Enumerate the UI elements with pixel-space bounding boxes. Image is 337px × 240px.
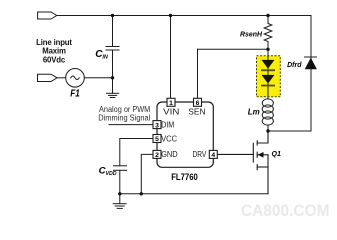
wire GND pin to bottom rail [141, 154, 153, 193]
svg-text:Analog or PWM: Analog or PWM [99, 105, 150, 114]
op-amp U1 FL7760 body [157, 102, 213, 167]
resistor RsenH [264, 16, 272, 56]
wire right rail [310, 16, 312, 132]
Q1 drain wire [257, 131, 268, 143]
pin 5 box [153, 135, 161, 144]
wire inductor node to right rail [268, 130, 311, 132]
wire VIN [170, 16, 172, 99]
wire connector to fuse [57, 77, 66, 79]
svg-text:60Vdc: 60Vdc [43, 55, 66, 64]
capacitor CIN plates [106, 46, 119, 48]
diode Dfrd triangle [305, 58, 317, 70]
wire SEN vertical [197, 49, 199, 98]
ground G1 [107, 78, 119, 98]
svg-text:Dimming Signal: Dimming Signal [98, 114, 150, 123]
Q1 gate bar [252, 143, 254, 162]
svg-text:4: 4 [211, 152, 215, 159]
Q1 arrow [258, 152, 264, 158]
svg-text:6: 6 [196, 100, 200, 107]
pin 4 box [209, 150, 217, 159]
connector J1 line input [38, 12, 57, 19]
svg-text:VIN: VIN [163, 107, 179, 116]
wire DRV to gate [217, 153, 253, 155]
node top CIN [111, 14, 114, 17]
svg-text:1: 1 [169, 100, 173, 107]
node dots [111, 14, 270, 196]
wire fuse to node [84, 77, 112, 79]
svg-text:SEN: SEN [188, 107, 205, 116]
Q1 channel bar [256, 141, 258, 145]
LED highlight box [257, 56, 281, 97]
svg-text:5: 5 [155, 136, 159, 143]
svg-text:GND: GND [161, 150, 178, 159]
pin 6 box [194, 98, 202, 107]
wire CVDD bottom [119, 170, 121, 194]
svg-text:Q1: Q1 [272, 151, 281, 158]
svg-text:FL7760: FL7760 [171, 171, 198, 182]
wire RsenH node to LED string [267, 49, 269, 55]
svg-text:DRV: DRV [193, 150, 207, 159]
svg-text:Line input: Line input [36, 38, 72, 47]
diode Dfrd [305, 56, 317, 58]
capacitor CVDD plates [114, 165, 127, 167]
wire bottom rail [120, 193, 268, 195]
wire through LED box [267, 56, 269, 99]
node SEN RsenH [266, 48, 269, 51]
pin 2 box [153, 150, 161, 159]
svg-text:Lm: Lm [248, 107, 260, 116]
svg-text:3: 3 [155, 122, 159, 129]
wire DIM signal [109, 124, 153, 126]
LED D1 [261, 60, 275, 71]
Q1 source/body vertical [267, 155, 269, 194]
LED D2 [261, 75, 275, 87]
svg-text:Dfrd: Dfrd [287, 62, 302, 69]
node top VIN [169, 14, 172, 17]
wire top rail [57, 15, 312, 17]
node inductor bottom [266, 129, 269, 132]
svg-text:Maxim: Maxim [42, 47, 66, 56]
label Analog or PWM Dimming Signal [98, 105, 150, 123]
ground G2 [113, 194, 126, 209]
fuse F1 circle [66, 69, 85, 88]
wire SEN horizontal [198, 48, 269, 50]
inductor Lm [262, 99, 273, 131]
Q1 source tab [257, 166, 268, 168]
svg-text:F1: F1 [70, 89, 80, 100]
wire CIN bottom [112, 50, 114, 78]
label Line input Maxim 60Vdc [36, 38, 72, 65]
wire VCC to CVDD [120, 139, 153, 166]
svg-text:RsenH: RsenH [240, 30, 263, 39]
svg-text:2: 2 [155, 152, 159, 159]
Q1 body tab [257, 154, 268, 156]
fuse F1 wave [71, 76, 79, 80]
svg-text:VCC: VCC [161, 135, 177, 144]
transistor Q1 [217, 131, 268, 194]
svg-text:DIM: DIM [161, 121, 174, 130]
node CVDD bottom [118, 192, 121, 195]
svg-text:CA800.COM: CA800.COM [241, 202, 330, 220]
node top RsenH [266, 14, 269, 17]
pin 3 box [153, 121, 161, 130]
node fuse CIN [111, 76, 114, 79]
pin 1 box [167, 98, 175, 107]
capacitor CIN vertical wire top [112, 16, 114, 47]
node GND bottom [140, 192, 143, 195]
connector J2 fuse input [38, 74, 58, 81]
